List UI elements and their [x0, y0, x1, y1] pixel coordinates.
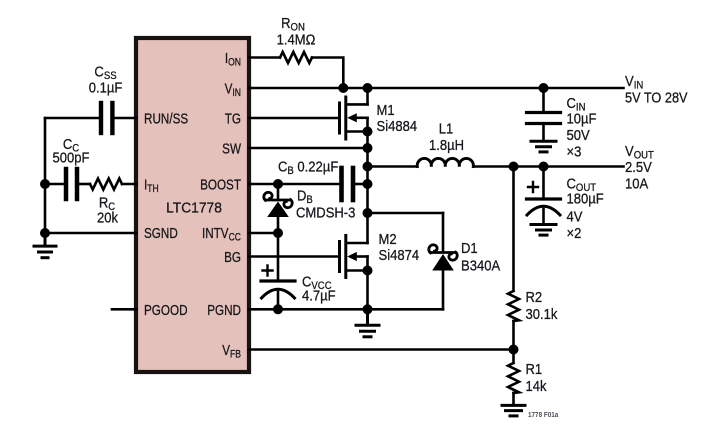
svg-text:50V: 50V — [567, 126, 591, 143]
wire R2 bottom lead — [512, 321, 515, 350]
node dot R1/R2/VFB — [509, 345, 518, 354]
capacitor COUT polarized — [527, 167, 561, 224]
wire R1 top lead — [512, 350, 515, 364]
svg-text:B340A: B340A — [461, 257, 501, 274]
wire RC to CC — [79, 183, 90, 186]
resistor R2 30.1k zigzag — [508, 291, 519, 321]
wire D1 anode to PGND — [442, 271, 445, 310]
wire CVCC to PGND — [277, 292, 280, 309]
wire L1 row from SW node — [368, 165, 418, 168]
svg-text:SGND: SGND — [144, 224, 178, 241]
wire DB anode to INTVCC — [277, 217, 280, 233]
svg-text:4.7µF: 4.7µF — [302, 287, 336, 304]
svg-text:×3: ×3 — [567, 143, 582, 160]
node dot SW/L1 — [363, 162, 372, 171]
svg-text:D1: D1 — [461, 239, 478, 256]
node dot INTVCC — [274, 229, 283, 238]
svg-text:TG: TG — [225, 110, 241, 127]
wire CSS to left rail — [45, 117, 99, 120]
resistor RON 1.4M zigzag — [280, 52, 312, 63]
node dot CIN/VIN — [539, 84, 548, 93]
wire PGND rail — [249, 308, 443, 311]
svg-text:10µF: 10µF — [567, 110, 597, 127]
svg-text:L1: L1 — [439, 120, 454, 137]
wire VOUT rail — [473, 165, 623, 168]
wire SW pin to SW node — [249, 147, 368, 150]
capacitor CC plates — [66, 169, 77, 199]
ground CIN — [531, 141, 556, 152]
node dot M1 drain/VIN — [363, 84, 372, 93]
transistor M1 Si4884 — [340, 88, 368, 139]
svg-text:Si4874: Si4874 — [379, 246, 420, 263]
svg-text:M2: M2 — [379, 230, 397, 247]
svg-text:1.8µH: 1.8µH — [429, 136, 464, 153]
node dot CVCC/PGND — [274, 305, 283, 314]
svg-text:SW: SW — [222, 140, 241, 157]
svg-text:CMDSH-3: CMDSH-3 — [296, 204, 356, 221]
svg-text:5V TO 28V: 5V TO 28V — [625, 88, 688, 105]
svg-text:1778 F01a: 1778 F01a — [528, 412, 558, 419]
wire VIN rail — [249, 87, 624, 90]
capacitor CB plates — [342, 168, 354, 200]
svg-text:CB 0.22µF: CB 0.22µF — [278, 158, 339, 178]
wire SW lower to D1 — [368, 212, 444, 215]
svg-text:BG: BG — [224, 249, 241, 266]
svg-text:R1: R1 — [526, 360, 543, 377]
node dot SW/D1 — [363, 209, 372, 218]
ground COUT — [531, 225, 556, 236]
wire RUN/SS pin to CSS — [115, 117, 137, 120]
diode DB CMDSH-3 — [264, 192, 292, 217]
wire ION pin to RON — [249, 56, 280, 59]
node dot left rail SGND — [41, 229, 50, 238]
svg-text:M1: M1 — [377, 101, 395, 118]
ground power — [356, 309, 379, 337]
node dot left rail ITH — [41, 180, 50, 189]
node dot SW — [363, 144, 372, 153]
svg-text:20k: 20k — [97, 209, 119, 226]
resistor R1 14k zigzag — [508, 363, 519, 393]
svg-text:180µF: 180µF — [567, 190, 605, 207]
wire PGOOD stub — [112, 308, 136, 311]
wire R1 bottom lead — [512, 393, 515, 404]
wire CC to left rail — [45, 183, 65, 186]
wire DB lead from BOOST — [277, 184, 280, 199]
node dot M1 source — [363, 127, 372, 136]
svg-text:PGOOD: PGOOD — [144, 301, 188, 318]
wire INTVCC pin — [249, 232, 281, 235]
node dot R2/VOUT — [509, 162, 518, 171]
wire INTVCC down to CVCC — [277, 233, 280, 280]
svg-text:PGND: PGND — [207, 301, 241, 318]
wire RON to VIN rail — [312, 58, 343, 89]
node dot RON/VIN — [339, 84, 348, 93]
svg-text:14k: 14k — [526, 377, 548, 394]
svg-text:2.5V: 2.5V — [625, 158, 652, 175]
resistor RC 20k zigzag — [90, 179, 122, 190]
capacitor CIN — [527, 88, 561, 140]
inductor L1 1.8uH — [417, 158, 473, 166]
wire left rail vertical — [44, 118, 47, 233]
svg-text:Si4884: Si4884 — [377, 117, 418, 134]
wire SGND pin to left rail — [45, 232, 136, 235]
ground R1 — [502, 405, 525, 416]
svg-text:RUN/SS: RUN/SS — [144, 110, 188, 127]
wire R2 top lead — [512, 167, 515, 292]
svg-text:500pF: 500pF — [53, 149, 90, 166]
wire BOOST pin to CB — [249, 183, 339, 186]
wire M2 body-source vertical — [366, 257, 369, 310]
svg-text:R2: R2 — [526, 288, 543, 305]
ground left rail — [34, 233, 56, 258]
node dot COUT/VOUT — [539, 162, 548, 171]
wire BG pin to M2 gate — [249, 255, 340, 258]
svg-text:BOOST: BOOST — [200, 176, 241, 193]
wire TG pin to M1 gate — [249, 117, 340, 120]
capacitor CSS plates — [101, 103, 112, 133]
IC U1 LTC1778 body — [136, 38, 249, 372]
node dot CB/SW — [363, 180, 372, 189]
wire CB to SW node — [355, 183, 367, 186]
svg-text:0.1µF: 0.1µF — [89, 79, 123, 96]
svg-text:1.4MΩ: 1.4MΩ — [277, 31, 316, 48]
capacitor CVCC polarized — [261, 266, 295, 299]
wire SW node vertical — [366, 118, 369, 243]
svg-text:LTC1778: LTC1778 — [166, 200, 222, 217]
svg-text:10A: 10A — [625, 175, 649, 192]
node dot M2/PGND — [363, 305, 372, 314]
node dot M2 source — [363, 266, 372, 275]
svg-text:30.1k: 30.1k — [526, 305, 559, 322]
svg-text:×2: ×2 — [567, 224, 582, 241]
diode D1 B340A — [429, 245, 457, 271]
wire VFB rail — [249, 348, 514, 351]
svg-text:4V: 4V — [567, 208, 584, 225]
node dot DB/BOOST — [274, 180, 283, 189]
wire D1 cathode lead — [442, 213, 445, 252]
transistor M2 Si4874 — [340, 236, 368, 278]
wire ITH pin to RC — [122, 183, 136, 186]
